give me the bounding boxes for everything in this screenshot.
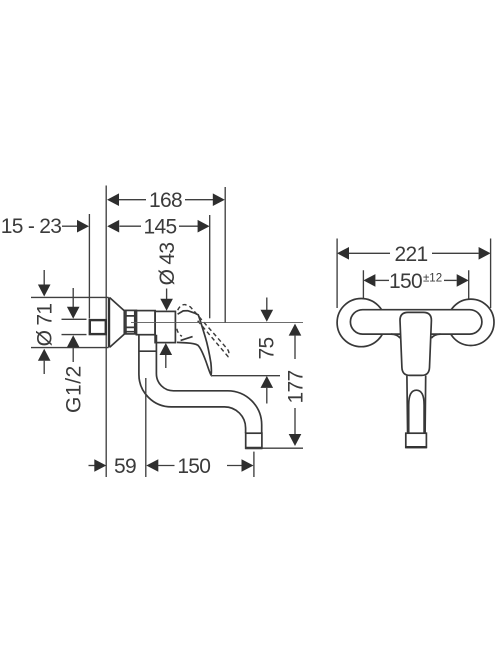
lever tip extension line — [212, 375, 280, 377]
spout outer edge — [139, 335, 246, 434]
spout arch front view — [409, 390, 424, 433]
svg-text:G1/2: G1/2 — [63, 365, 86, 413]
svg-text:150: 150 — [177, 455, 210, 478]
dimension 150 — [146, 459, 158, 472]
aerator — [246, 433, 262, 448]
svg-text:150: 150 — [389, 270, 422, 293]
svg-text:Ø 43: Ø 43 — [156, 243, 179, 286]
extension line 145 right — [209, 215, 211, 318]
svg-text:221: 221 — [395, 243, 428, 266]
capsule-handle fillets — [391, 334, 441, 338]
escutcheon cone — [108, 297, 110, 347]
aerator front view — [406, 433, 427, 447]
dimension 177 — [289, 324, 302, 336]
extension lines 221 — [337, 239, 491, 309]
right wall escutcheon circle — [448, 299, 494, 345]
dimension 75 — [266, 298, 268, 311]
extension line 168 right — [224, 187, 226, 322]
svg-text:59: 59 — [114, 455, 136, 478]
dimension 59 — [89, 465, 96, 467]
pipe end extension line — [88, 214, 90, 319]
dimension 168 — [119, 199, 214, 201]
lever handle front view — [400, 312, 431, 375]
spout inner edge — [156, 335, 261, 434]
extension lines 150 — [363, 270, 468, 298]
dimension 145 — [120, 225, 199, 227]
union nut — [124, 310, 136, 334]
wall line — [105, 186, 107, 478]
lever parting line — [181, 337, 193, 341]
dimension 221 — [337, 247, 349, 260]
supply pipe stub G1/2 — [90, 320, 106, 334]
svg-text:75: 75 — [256, 338, 279, 360]
outlet bottom extension line — [245, 447, 303, 449]
lever handle solid — [177, 311, 211, 375]
valve housing (Ø43) — [155, 311, 175, 342]
svg-text:168: 168 — [149, 189, 182, 212]
body capsule front view — [350, 310, 482, 334]
lever heel dashed — [177, 329, 182, 337]
svg-text:145: 145 — [144, 216, 177, 239]
dimension G1/2 — [72, 288, 74, 308]
spout joint seam — [139, 350, 157, 352]
svg-text:Ø 71: Ø 71 — [34, 304, 57, 347]
left wall escutcheon circle — [337, 299, 385, 347]
body cylinder — [136, 311, 155, 335]
centerline axis — [131, 322, 303, 324]
spout tube front view — [407, 376, 426, 434]
dimension Ø71 — [43, 270, 45, 286]
lever handle dashed (open position) — [178, 305, 229, 357]
spout center extension line — [145, 378, 147, 477]
svg-text:±12: ±12 — [423, 273, 442, 285]
svg-text:177: 177 — [285, 371, 308, 404]
outlet center extension line — [253, 452, 255, 477]
dimension 150 plus-minus 12 — [363, 274, 375, 287]
svg-text:15 - 23: 15 - 23 — [1, 215, 61, 238]
